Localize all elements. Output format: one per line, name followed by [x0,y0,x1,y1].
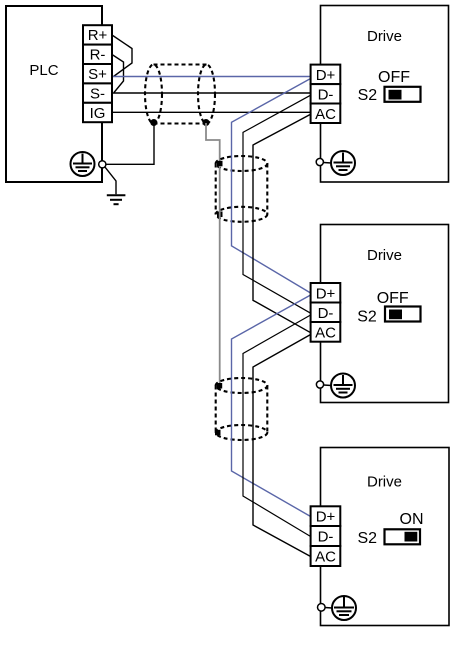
wire AC drive1 to AC drive2 [253,114,311,332]
drive 3 shield terminal circle [318,604,326,612]
shield drain wire 2 [219,166,221,384]
svg-text:Drive: Drive [367,247,402,264]
switch S2 drive3 [385,529,421,544]
svg-text:D+: D+ [316,67,336,84]
drive 2 terminal block [311,283,341,342]
cable 1 shield (dashed cylinder) [145,65,215,124]
svg-text:Drive: Drive [367,474,402,491]
earth ground symbol [107,195,126,204]
svg-text:S-: S- [90,85,105,102]
junction dot shield2 bottom [217,212,223,218]
svg-text:D+: D+ [316,285,336,302]
wire shield circle to cable1 shield [106,123,154,165]
PLC box [6,6,102,182]
drive 3 protective earth symbol [332,596,356,620]
wire IG to AC drive1 [113,111,311,113]
svg-text:ON: ON [400,511,424,528]
junction dot shield1 left [150,119,157,126]
drive 1 terminal block [311,65,341,123]
junction dot shield1 right [203,119,210,126]
svg-text:AC: AC [315,549,336,566]
cable 2 shield (dashed cylinder) [216,156,268,222]
drive 3 terminal block [311,506,341,566]
wire AC drive2 to AC drive3 [253,335,311,557]
svg-text:S2: S2 [358,530,378,547]
PLC shield terminal circle [99,161,106,168]
svg-text:D-: D- [318,305,334,322]
svg-text:S2: S2 [357,309,377,326]
wire D+ drive2 to D+ drive3 (blue) [232,295,311,517]
wire to drive2 earth [324,384,332,387]
svg-text:OFF: OFF [377,290,409,307]
drive 1 box [321,6,449,183]
jumper R+ to S+ [112,35,132,77]
drive 2 shield terminal circle [316,381,323,388]
drive 3 box [321,448,450,626]
svg-text:AC: AC [315,324,336,341]
drive 1 shield terminal circle [316,158,323,165]
cable 3 shield (dashed cylinder) [216,378,268,440]
jumper R- to S- [112,55,124,93]
svg-text:S2: S2 [358,87,378,104]
drive 2 protective earth symbol [331,374,355,398]
junction dot shield3 top [217,383,223,389]
wire S- to D- drive1 [113,92,311,94]
shield drain wire 1 [206,123,220,161]
svg-text:R+: R+ [88,27,108,44]
junction dot shield3 bottom [215,430,221,436]
PLC terminal block [83,25,112,122]
svg-text:OFF: OFF [378,69,410,86]
svg-text:D-: D- [318,529,334,546]
svg-text:PLC: PLC [29,62,58,79]
wire circle to earth ground [105,167,116,195]
drive 1 protective earth symbol [331,151,355,175]
wire D- drive1 to D- drive2 [243,95,311,313]
switch S2 drive2 [385,307,421,322]
svg-text:D+: D+ [316,509,336,526]
wire to drive1 earth [323,162,331,165]
svg-text:D-: D- [318,86,334,103]
svg-text:AC: AC [315,106,336,123]
wire D+ drive1 to D+ drive2 (blue) [232,79,311,294]
junction dot shield2 top [217,161,223,167]
wire to drive3 earth [325,607,332,610]
wire S+ to D+ drive1 (blue) [113,76,311,78]
switch S2 drive1 [385,87,421,102]
PLC protective earth symbol [71,152,95,176]
svg-text:S+: S+ [88,66,107,83]
svg-text:IG: IG [90,105,106,122]
wire D- drive2 to D- drive3 [243,315,311,537]
svg-text:R-: R- [90,47,106,64]
drive 2 box [321,225,449,403]
svg-text:Drive: Drive [367,28,402,45]
